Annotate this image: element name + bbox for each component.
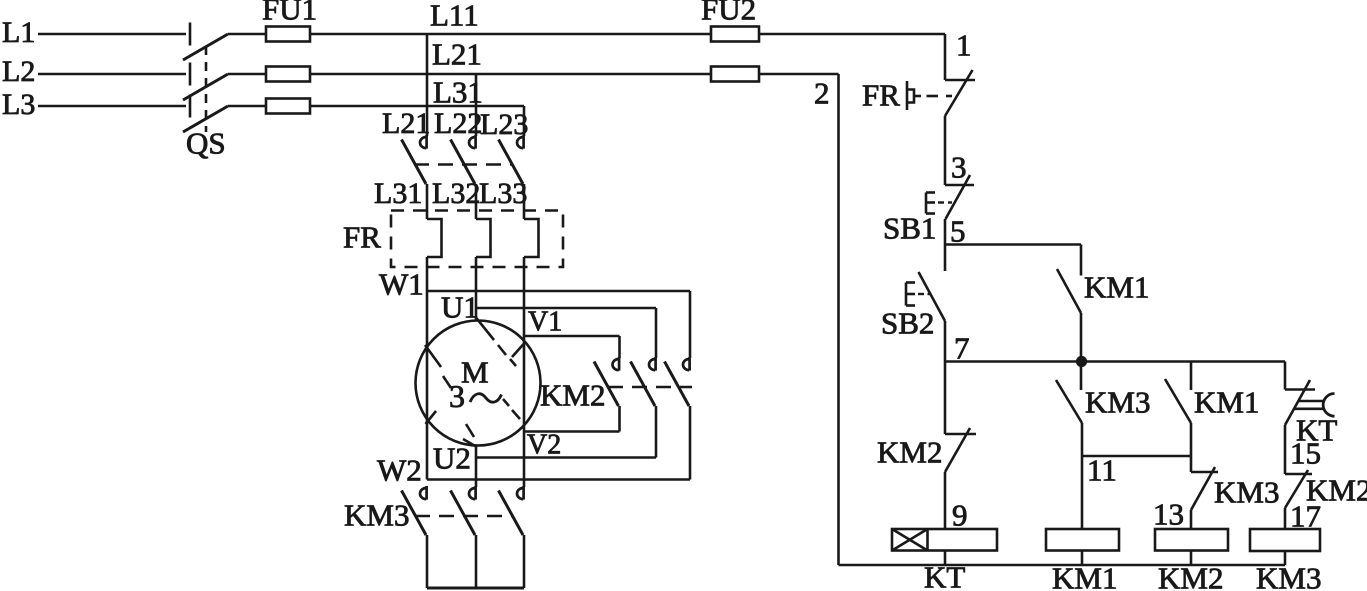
svg-text:15: 15 xyxy=(1290,436,1321,471)
fuse FU1 pole 1 xyxy=(266,27,310,42)
svg-text:L32: L32 xyxy=(432,177,480,210)
wire node5 to SB2 xyxy=(944,245,947,272)
FR heater 3 xyxy=(524,219,539,257)
coil KM1 xyxy=(1046,529,1119,551)
svg-text:KM2: KM2 xyxy=(877,435,942,470)
wire KM2 coil to rail xyxy=(1190,551,1193,566)
control left rail (net 2) xyxy=(837,74,840,565)
contact KM2 NC (interlock) xyxy=(1285,470,1312,508)
motor tilde xyxy=(470,394,502,402)
switch QS linkage xyxy=(205,46,208,132)
switch QS pole 1 xyxy=(183,23,228,61)
svg-text:W2: W2 xyxy=(377,453,422,488)
svg-text:13: 13 xyxy=(1153,497,1184,532)
svg-text:FR: FR xyxy=(343,220,381,255)
wire W1 row xyxy=(427,291,690,358)
contact KM3 NC (interlock) xyxy=(1191,467,1218,510)
wire contact2 to FR xyxy=(475,184,478,219)
contact SB2 NO xyxy=(919,272,946,321)
svg-text:11: 11 xyxy=(1087,453,1117,488)
wire node7 to KT branch xyxy=(1284,362,1287,390)
thermal relay FR actuator xyxy=(907,81,952,110)
wire L3 from source xyxy=(38,105,186,108)
main contact linkage xyxy=(414,163,512,166)
coil KT (time relay) xyxy=(892,529,997,551)
main contact pole 2 xyxy=(451,135,476,184)
svg-text:3: 3 xyxy=(449,378,465,414)
wire 9 to KT coil xyxy=(944,472,947,529)
wire drop phase 2 xyxy=(475,74,478,136)
svg-text:V2: V2 xyxy=(527,430,561,461)
wire V1 row xyxy=(524,336,620,358)
motor winding dashes xyxy=(425,317,525,447)
node 7 junction dot xyxy=(1076,356,1087,367)
contact KM2 NC (in KT branch) xyxy=(945,428,976,472)
svg-text:KM3: KM3 xyxy=(1214,475,1279,510)
wire 17 to KM3 coil xyxy=(1284,508,1287,529)
wire KM2-1 to V2 xyxy=(618,406,621,432)
wire 15 segment xyxy=(1284,425,1287,474)
svg-text:L11: L11 xyxy=(430,0,479,33)
switch QS pole 2 xyxy=(183,63,228,101)
wire W2 row xyxy=(427,478,690,481)
wire L11 horizontal xyxy=(310,33,711,36)
wire L21 horizontal xyxy=(310,73,711,76)
contactor KM3 pole 1 xyxy=(402,486,427,535)
star point bus xyxy=(427,587,524,590)
svg-text:L1: L1 xyxy=(2,16,35,49)
main contact pole 1 xyxy=(402,135,427,184)
svg-text:QS: QS xyxy=(186,126,226,161)
svg-text:3: 3 xyxy=(951,150,967,185)
wire KM2-2 to U2 xyxy=(655,406,658,458)
svg-text:L3: L3 xyxy=(2,88,35,121)
wire U phase upper xyxy=(475,257,478,321)
contact SB1 NC xyxy=(945,175,974,219)
switch QS pole 3 xyxy=(183,95,228,133)
control bottom rail xyxy=(839,564,1286,567)
wire L2 to FU1 xyxy=(228,73,266,76)
contactor KM2 pole 2 xyxy=(631,357,656,406)
wire node7 stub b1 xyxy=(1080,362,1083,391)
wire line2 to control rail xyxy=(759,73,839,76)
wire node7 to KM2NC xyxy=(944,362,947,435)
wire V phase to KM3 xyxy=(523,432,526,488)
svg-text:KM1: KM1 xyxy=(1052,561,1117,591)
wire contact1 to FR xyxy=(426,184,429,219)
wire L1 to FU1 xyxy=(228,33,266,36)
coil KM2 xyxy=(1155,529,1228,551)
coil KM3 xyxy=(1250,529,1320,551)
svg-text:KM3: KM3 xyxy=(1256,561,1321,591)
KM3 linkage xyxy=(415,515,513,518)
contactor KM3 pole 3 xyxy=(499,486,524,535)
wire KM2-3 to W2 xyxy=(689,406,692,480)
wire node7 stub b2 xyxy=(1190,362,1193,391)
wire W phase down xyxy=(426,257,429,480)
svg-text:2: 2 xyxy=(814,76,830,111)
wire KM1 aux to node7 xyxy=(1080,313,1083,362)
KM2 linkage xyxy=(608,386,692,389)
wire node 1 to 3 xyxy=(944,116,947,185)
thermal relay FR box xyxy=(391,211,563,268)
wire line1 to control xyxy=(759,34,945,80)
wire to node 11 xyxy=(1081,423,1084,529)
svg-text:KM1: KM1 xyxy=(1194,385,1259,420)
wire KM3-2 down xyxy=(475,535,478,588)
svg-text:FU2: FU2 xyxy=(701,0,756,27)
fuse FU2 pole 1 xyxy=(711,27,759,42)
wire L31 horizontal xyxy=(310,105,524,108)
svg-text:L21: L21 xyxy=(382,107,430,140)
svg-text:KM1: KM1 xyxy=(1084,270,1149,305)
wire KM3 coil to rail xyxy=(1284,551,1287,565)
motor M 3~ xyxy=(416,321,541,446)
FR heater 1 xyxy=(427,219,442,257)
svg-text:U1: U1 xyxy=(441,290,479,325)
svg-text:W1: W1 xyxy=(379,267,424,302)
wire KM3-1 down xyxy=(426,535,429,588)
wire U2 row xyxy=(476,446,656,487)
wire U1 row xyxy=(476,308,656,358)
pushbutton SB2 actuator xyxy=(906,283,931,306)
wire KT coil to rail xyxy=(944,551,947,566)
svg-text:SB2: SB2 xyxy=(881,306,934,341)
contact KM3 NO (branch 1) xyxy=(1056,380,1082,423)
wire 3-5 segment xyxy=(944,219,947,245)
svg-text:M: M xyxy=(461,355,489,390)
svg-text:KM3: KM3 xyxy=(1085,385,1150,420)
main contact pole 3 xyxy=(499,135,524,184)
wire 13 to KM2 coil xyxy=(1190,510,1193,529)
svg-text:L33: L33 xyxy=(479,177,527,210)
wire drop phase 3 xyxy=(523,106,526,136)
svg-text:1: 1 xyxy=(956,28,972,63)
svg-text:L2: L2 xyxy=(2,55,35,88)
svg-text:KM2: KM2 xyxy=(1158,561,1223,591)
contactor KM2 pole 1 xyxy=(594,357,619,406)
wire node5 branch xyxy=(945,245,1081,276)
wire L1 from source xyxy=(38,33,186,36)
svg-text:L22: L22 xyxy=(434,107,482,140)
svg-text:V1: V1 xyxy=(528,307,562,338)
wire V2 row xyxy=(524,430,620,433)
wire L3 to FU1 xyxy=(228,105,266,108)
fuse FU1 pole 2 xyxy=(266,67,310,82)
wire L2 from source xyxy=(38,73,186,76)
contact KM1 NO (branch 2) xyxy=(1165,379,1191,423)
fuse FU2 pole 2 xyxy=(711,67,759,82)
contact FR NC xyxy=(945,70,975,116)
fuse FU1 pole 3 xyxy=(266,99,310,114)
wire V phase down xyxy=(523,257,526,432)
wire SB2 to node7 xyxy=(944,321,947,362)
wire contact3 to FR xyxy=(523,184,526,219)
svg-text:SB1: SB1 xyxy=(883,211,936,246)
contactor KM2 pole 3 xyxy=(665,357,690,406)
svg-text:U2: U2 xyxy=(433,441,471,476)
svg-text:KM2: KM2 xyxy=(540,378,605,413)
wire drop phase 1 xyxy=(426,34,429,136)
wire node11 row xyxy=(1082,455,1191,458)
svg-text:FR: FR xyxy=(862,78,900,113)
svg-text:L31: L31 xyxy=(374,177,422,210)
svg-text:KT: KT xyxy=(924,560,965,591)
pushbutton SB1 actuator xyxy=(926,193,952,214)
svg-text:9: 9 xyxy=(952,498,968,533)
wire KM1 aux2 down xyxy=(1190,423,1193,472)
wire node7 rail xyxy=(945,360,1285,363)
wire KM3-3 down xyxy=(523,535,526,588)
contactor KM3 pole 2 xyxy=(451,486,476,535)
contact KM1 NO (self-hold) xyxy=(1057,269,1081,313)
contact KT delayed NO xyxy=(1285,380,1335,425)
svg-text:FU1: FU1 xyxy=(262,0,317,27)
FR heater 2 xyxy=(476,219,491,257)
wire KM1 coil to rail xyxy=(1081,551,1084,566)
svg-text:L21: L21 xyxy=(432,37,482,72)
svg-text:KM3: KM3 xyxy=(344,498,409,533)
